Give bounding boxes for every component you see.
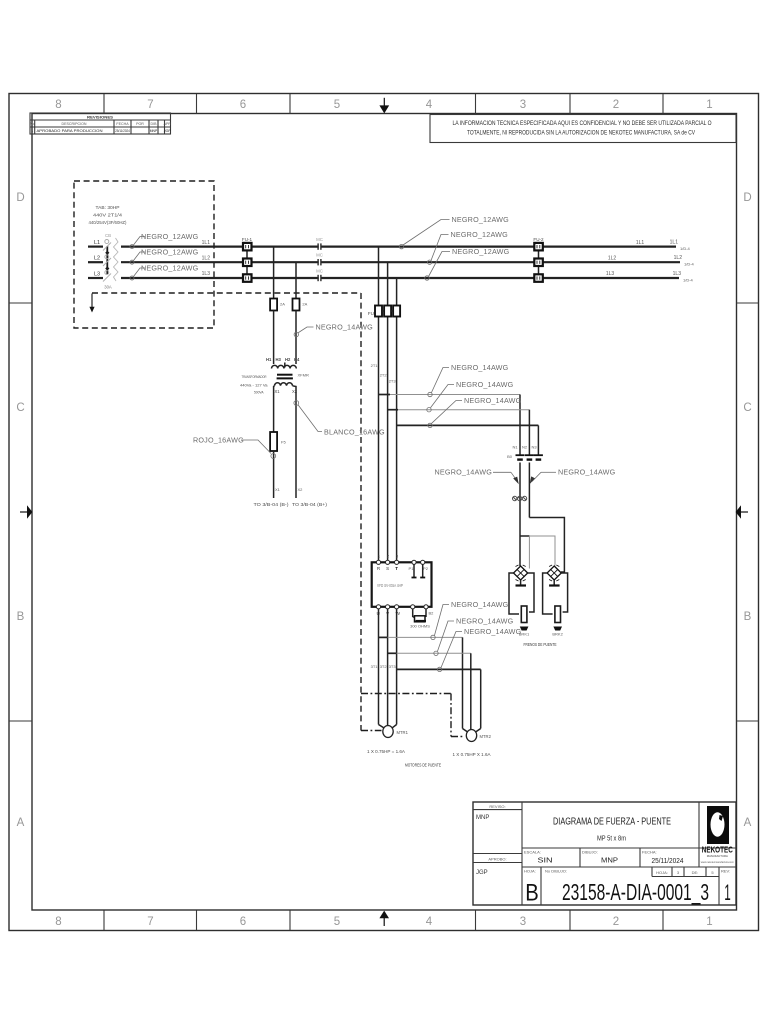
splice marks — [513, 496, 527, 500]
wire label NEGRO_12AWG bus1 (middle) — [399, 215, 509, 249]
wire: brake feed B down — [528, 463, 530, 518]
svg-text:ROJO_16AWG: ROJO_16AWG — [193, 436, 244, 445]
drawing border: inner frame — [32, 114, 737, 911]
svg-text:REV:: REV: — [721, 869, 730, 874]
svg-text:DESCRIPCION: DESCRIPCION — [62, 122, 87, 126]
svg-text:www.nekotecmanufactura.com: www.nekotecmanufactura.com — [701, 860, 735, 864]
svg-text:2T1: 2T1 — [371, 363, 379, 368]
svg-text:MTR1: MTR1 — [397, 730, 409, 735]
svg-text:N3: N3 — [531, 445, 537, 450]
bus end labels with off-page refs — [670, 239, 695, 282]
drawing border: outer frame — [9, 94, 759, 931]
wire label NEGRO_14AWG branch3 — [428, 396, 522, 428]
svg-text:5: 5 — [334, 99, 340, 111]
zone tick marks top — [104, 94, 663, 114]
svg-text:F5: F5 — [281, 440, 286, 445]
svg-text:N2: N2 — [522, 445, 528, 450]
svg-text:ESCALA:: ESCALA: — [524, 850, 541, 855]
brake coil circuit BRK1 — [509, 573, 534, 637]
motor2 funnel — [463, 729, 469, 733]
svg-text:DIAGRAMA DE FUERZA - PUENTE: DIAGRAMA DE FUERZA - PUENTE — [553, 816, 671, 828]
svg-text:REVISO:: REVISO: — [489, 804, 505, 809]
svg-text:NEGRO_14AWG: NEGRO_14AWG — [464, 627, 522, 636]
svg-text:MC: MC — [316, 253, 323, 258]
svg-text:30A: 30A — [104, 285, 112, 290]
contactor MC contacts on bus — [316, 237, 323, 281]
svg-text:H1: H1 — [266, 357, 272, 362]
braking resistor 300 OHMS — [410, 609, 430, 629]
svg-text:H2: H2 — [285, 357, 291, 362]
svg-text:NEGRO_14AWG: NEGRO_14AWG — [456, 617, 514, 626]
wire label NEGRO_14AWG (transformer feed) — [294, 323, 373, 337]
svg-text:VFD SV-IG5A 4HP: VFD SV-IG5A 4HP — [377, 583, 403, 588]
motor1 funnel — [379, 725, 385, 729]
svg-text:SIN: SIN — [538, 856, 553, 865]
svg-text:8: 8 — [55, 99, 61, 111]
wire: V drop to motor1 — [387, 609, 389, 726]
svg-text:JGP: JGP — [476, 870, 488, 876]
svg-text:1: 1 — [31, 129, 33, 133]
supply panel text — [89, 205, 127, 225]
brake feed branch N1 — [379, 395, 521, 456]
svg-text:NEGRO_12AWG: NEGRO_12AWG — [452, 247, 510, 256]
svg-text:B0: B0 — [507, 454, 513, 459]
wire label BLANCO_16AWG — [294, 401, 385, 437]
svg-text:MNP: MNP — [601, 856, 618, 865]
zone tick marks sides — [9, 303, 759, 721]
svg-text:8: 8 — [55, 916, 61, 928]
svg-text:NEGRO_14AWG: NEGRO_14AWG — [451, 600, 509, 609]
svg-text:1L3: 1L3 — [606, 271, 615, 277]
svg-text:B2: B2 — [429, 611, 435, 616]
svg-text:TO 3/B-04 (B+): TO 3/B-04 (B+) — [292, 502, 328, 507]
svg-text:FECHA:: FECHA: — [642, 850, 657, 855]
svg-text:N1: N1 — [512, 445, 518, 450]
svg-text:2: 2 — [613, 916, 619, 928]
svg-text:B: B — [744, 611, 752, 623]
svg-text:TRANSFORMADOR: TRANSFORMADOR — [242, 374, 267, 379]
svg-text:3T2: 3T2 — [380, 664, 388, 669]
wire label NEGRO_12AWG L3 (in panel) — [130, 263, 199, 280]
wire: primary feeds down to transformer — [273, 311, 275, 365]
svg-text:HOJA:: HOJA: — [656, 870, 668, 875]
svg-text:FRENOS DE PUENTE: FRENOS DE PUENTE — [524, 642, 557, 647]
svg-text:1L3: 1L3 — [202, 271, 211, 277]
svg-text:2A: 2A — [280, 302, 285, 307]
svg-text:FECHA: FECHA — [116, 122, 129, 126]
svg-text:1: 1 — [706, 99, 712, 111]
wire label NEGRO_12AWG L1 (in panel) — [130, 232, 199, 249]
control panel dashed boundary — [92, 293, 361, 731]
wire: brake feed A down — [519, 463, 521, 567]
svg-text:NEGRO_12AWG: NEGRO_12AWG — [141, 247, 199, 256]
zone tick marks bottom — [104, 911, 663, 931]
bus line 2 — [121, 261, 680, 263]
bus mid labels 1L1 1L2 1L3 — [606, 240, 645, 277]
title block — [473, 802, 736, 907]
svg-text:MC: MC — [316, 237, 323, 242]
brake feed branch N3 — [397, 425, 539, 455]
svg-text:X1: X1 — [275, 487, 281, 492]
svg-text:A: A — [17, 817, 25, 829]
svg-text:MNP: MNP — [476, 815, 489, 821]
svg-text:3: 3 — [520, 916, 526, 928]
fuse F4 — [293, 299, 300, 311]
svg-text:3: 3 — [520, 99, 526, 111]
svg-text:4: 4 — [426, 99, 433, 111]
svg-text:C: C — [743, 402, 751, 414]
zone letters left — [16, 192, 24, 829]
svg-text:MC: MC — [316, 268, 323, 273]
wire L2 stub — [88, 261, 103, 263]
svg-text:B: B — [525, 880, 539, 907]
svg-text:3T3: 3T3 — [389, 664, 397, 669]
svg-text:1/D-4: 1/D-4 — [680, 246, 691, 251]
svg-text:25/11/2024: 25/11/2024 — [115, 129, 130, 133]
fuse bank FU-3 on VFD drops — [368, 306, 400, 317]
svg-text:DE:: DE: — [692, 870, 699, 875]
zone letters right — [743, 192, 751, 829]
svg-text:5: 5 — [334, 916, 340, 928]
svg-text:D: D — [16, 192, 24, 204]
svg-text:No: No — [30, 122, 35, 126]
wire label ROJO_16AWG — [193, 436, 276, 459]
svg-text:TOTALMENTE, NI REPRODUCIDA SIN: TOTALMENTE, NI REPRODUCIDA SIN LA AUTORI… — [467, 130, 696, 137]
supply panel dashed box — [74, 181, 214, 328]
wire: brake B turns to BRK2 — [529, 518, 564, 573]
motor2 branch V — [388, 653, 471, 729]
svg-text:A: A — [744, 817, 752, 829]
svg-text:HOJA:: HOJA: — [524, 869, 536, 874]
svg-text:440/254V(3F/60HZ): 440/254V(3F/60HZ) — [89, 220, 127, 225]
svg-text:1L1: 1L1 — [670, 239, 679, 245]
svg-text:NEGRO_12AWG: NEGRO_12AWG — [451, 230, 509, 239]
wire L1 stub — [88, 246, 103, 248]
centering arrow left — [20, 505, 32, 518]
svg-text:No DIBUJO:: No DIBUJO: — [545, 869, 567, 874]
svg-text:1 X 0.75HP = 1.6A: 1 X 0.75HP = 1.6A — [367, 749, 406, 754]
motor MTR2 — [466, 730, 491, 742]
svg-text:LA INFORMACION TECNICA ESPECIF: LA INFORMACION TECNICA ESPECIFICADA AQUI… — [453, 120, 712, 127]
svg-text:TO 3/B-04 (B-): TO 3/B-04 (B-) — [254, 502, 290, 507]
svg-text:1L1: 1L1 — [202, 240, 211, 246]
DC link jumper — [413, 564, 415, 577]
wire label NEGRO_14AWG branch2 — [427, 380, 514, 412]
centering arrow right — [736, 505, 748, 518]
fuse bank FU-2 — [533, 237, 544, 282]
NEKOTEC logo — [701, 806, 735, 864]
svg-text:D: D — [743, 192, 751, 204]
svg-text:NEGRO_12AWG: NEGRO_12AWG — [141, 263, 199, 272]
centering arrow bottom — [379, 911, 389, 926]
confidentiality notice box top-right — [430, 115, 736, 143]
wire label NEGRO_14AWG motor branch1 — [431, 600, 509, 640]
centering arrow top — [379, 98, 389, 114]
transformer T1 — [240, 357, 309, 395]
motor2 branch U — [379, 637, 463, 728]
svg-text:23158-A-DIA-0001_3: 23158-A-DIA-0001_3 — [562, 879, 709, 905]
bus line 3 — [121, 277, 679, 279]
svg-text:25/11/2024: 25/11/2024 — [652, 856, 684, 865]
zone numbers top — [55, 99, 712, 111]
svg-text:DIBUJO:: DIBUJO: — [582, 850, 598, 855]
svg-text:1L2: 1L2 — [608, 255, 617, 261]
svg-text:MNP: MNP — [150, 129, 158, 133]
svg-text:1 X 0.75HP X 1.6A: 1 X 0.75HP X 1.6A — [453, 752, 492, 757]
svg-text:300 OHMS: 300 OHMS — [410, 624, 430, 629]
svg-text:APR: APR — [164, 122, 172, 126]
svg-text:6: 6 — [240, 99, 246, 111]
VFD U1 — [372, 554, 434, 618]
svg-text:DIB: DIB — [151, 122, 158, 126]
zone numbers bottom — [55, 916, 712, 928]
wire: W drop to motor1 — [396, 609, 398, 725]
svg-text:L3: L3 — [94, 272, 100, 278]
breaker CB (3-pole) — [103, 233, 118, 290]
wire: transformer primary tap from bus2 — [295, 262, 297, 298]
machine boundary dash-dot lines — [361, 694, 464, 737]
wire: transformer primary tap from bus1 — [273, 247, 275, 299]
bus line 1 — [121, 246, 676, 248]
wire label NEGRO_12AWG L2 (in panel) — [130, 247, 199, 264]
fuse bank FU-1 — [242, 237, 253, 282]
brake feed branch N2 — [388, 410, 530, 455]
brake rectifier BRK2 (bridge) — [547, 565, 561, 581]
svg-text:T: T — [395, 566, 398, 571]
connector terminals N1 N2 N3 — [507, 445, 543, 460]
svg-text:MOTORES DE PUENTE: MOTORES DE PUENTE — [405, 763, 441, 768]
svg-text:FU-1: FU-1 — [242, 237, 253, 242]
svg-text:2: 2 — [613, 99, 619, 111]
svg-text:H4: H4 — [294, 357, 300, 362]
svg-text:CB: CB — [105, 233, 111, 238]
svg-text:BLANCO_16AWG: BLANCO_16AWG — [324, 428, 385, 437]
wire: VFD phase drop 3 from bus3 — [396, 278, 398, 562]
wire: U drop to motor1 — [378, 609, 380, 725]
svg-text:1: 1 — [706, 916, 712, 928]
svg-text:NEGRO_14AWG: NEGRO_14AWG — [435, 468, 493, 477]
svg-text:MP 5t x 8m: MP 5t x 8m — [597, 836, 626, 843]
svg-text:X2: X2 — [292, 389, 298, 394]
svg-text:P2: P2 — [423, 566, 429, 571]
svg-text:REVISIONES: REVISIONES — [87, 114, 113, 119]
svg-text:BRK2: BRK2 — [552, 632, 563, 637]
svg-text:X1: X1 — [275, 389, 281, 394]
svg-text:1L2: 1L2 — [674, 255, 683, 261]
wire label NEGRO_14AWG brake feed right — [530, 468, 616, 485]
wire label NEGRO_14AWG motor branch2 — [434, 617, 514, 656]
svg-text:2T2: 2T2 — [380, 373, 388, 378]
node 1L1 / 1L2 / 1L3 labels before panel edge — [202, 240, 211, 277]
svg-text:L2: L2 — [94, 256, 100, 262]
svg-text:APROBADO PARA PRODUCCION: APROBADO PARA PRODUCCION — [37, 129, 103, 133]
svg-text:NEGRO_14AWG: NEGRO_14AWG — [558, 468, 616, 477]
svg-text:440V 2T1/4: 440V 2T1/4 — [93, 213, 123, 218]
wire: VFD phase drop 2 from bus2 — [387, 262, 389, 562]
svg-text:TAB: 30HP: TAB: 30HP — [96, 205, 120, 210]
wire label NEGRO_14AWG motor branch3 — [437, 627, 521, 672]
svg-text:1L1: 1L1 — [636, 240, 645, 246]
svg-text:H3: H3 — [276, 357, 282, 362]
svg-text:NEGRO_12AWG: NEGRO_12AWG — [141, 232, 199, 241]
svg-text:6: 6 — [240, 916, 246, 928]
wire label NEGRO_12AWG bus2 (middle) — [427, 230, 508, 264]
svg-text:POR: POR — [136, 122, 144, 126]
svg-text:APROBO:: APROBO: — [488, 857, 506, 862]
wire: jog and gray feeds to rectifier inputs — [520, 536, 555, 569]
svg-text:S: S — [386, 566, 389, 571]
motor2 branch W — [397, 669, 481, 728]
svg-text:NEGRO_14AWG: NEGRO_14AWG — [456, 380, 514, 389]
brake coil circuit BRK2 — [543, 573, 568, 637]
svg-text:NEGRO_12AWG: NEGRO_12AWG — [452, 215, 510, 224]
svg-text:7: 7 — [147, 99, 153, 111]
svg-text:XFMR: XFMR — [298, 373, 309, 378]
svg-text:FU: FU — [368, 311, 374, 316]
svg-text:1: 1 — [724, 880, 731, 905]
svg-text:2A: 2A — [302, 302, 307, 307]
svg-text:L1: L1 — [94, 240, 100, 246]
wire: secondary X2 down — [295, 392, 297, 499]
svg-text:1L2: 1L2 — [202, 255, 211, 261]
svg-text:C: C — [16, 402, 24, 414]
wire: secondary X1 down — [273, 392, 275, 433]
svg-text:B: B — [17, 611, 25, 623]
svg-text:440Va - 127 Va: 440Va - 127 Va — [240, 383, 268, 388]
svg-text:NEKOTEC: NEKOTEC — [702, 845, 733, 855]
svg-text:2T3: 2T3 — [389, 379, 397, 384]
revision table top-left — [30, 113, 171, 134]
svg-text:NEGRO_14AWG: NEGRO_14AWG — [316, 323, 374, 332]
svg-text:7: 7 — [147, 916, 153, 928]
ground/exit arrow at panel boundary — [89, 294, 94, 313]
fuse F3 — [270, 299, 277, 311]
wire: VFD phase drop 1 from bus1 — [378, 247, 380, 563]
wire label NEGRO_14AWG branch1 — [428, 363, 509, 397]
svg-text:JGP: JGP — [164, 129, 172, 133]
wire L3 stub — [88, 277, 103, 279]
motor MTR1 — [383, 726, 409, 738]
brake rectifier BRK1 (bridge) — [514, 565, 528, 581]
wire label NEGRO_12AWG bus3 (middle) — [425, 247, 510, 280]
wire X1 continues — [273, 451, 275, 498]
svg-text:FU-2: FU-2 — [533, 237, 544, 242]
svg-text:NEGRO_14AWG: NEGRO_14AWG — [451, 363, 509, 372]
svg-text:1/D-4: 1/D-4 — [684, 262, 695, 267]
svg-text:1/D-4: 1/D-4 — [683, 277, 694, 282]
svg-text:X2: X2 — [298, 487, 304, 492]
svg-text:MANUFACTURA: MANUFACTURA — [707, 854, 728, 858]
svg-text:4: 4 — [426, 916, 433, 928]
svg-text:500VA: 500VA — [254, 390, 264, 395]
fuse F5 — [270, 432, 277, 451]
svg-text:NEGRO_14AWG: NEGRO_14AWG — [464, 396, 522, 405]
svg-text:MTR2: MTR2 — [480, 734, 492, 739]
svg-text:3T1: 3T1 — [371, 664, 379, 669]
svg-text:1L3: 1L3 — [673, 271, 682, 277]
wire label NEGRO_14AWG brake feed left — [435, 468, 519, 485]
